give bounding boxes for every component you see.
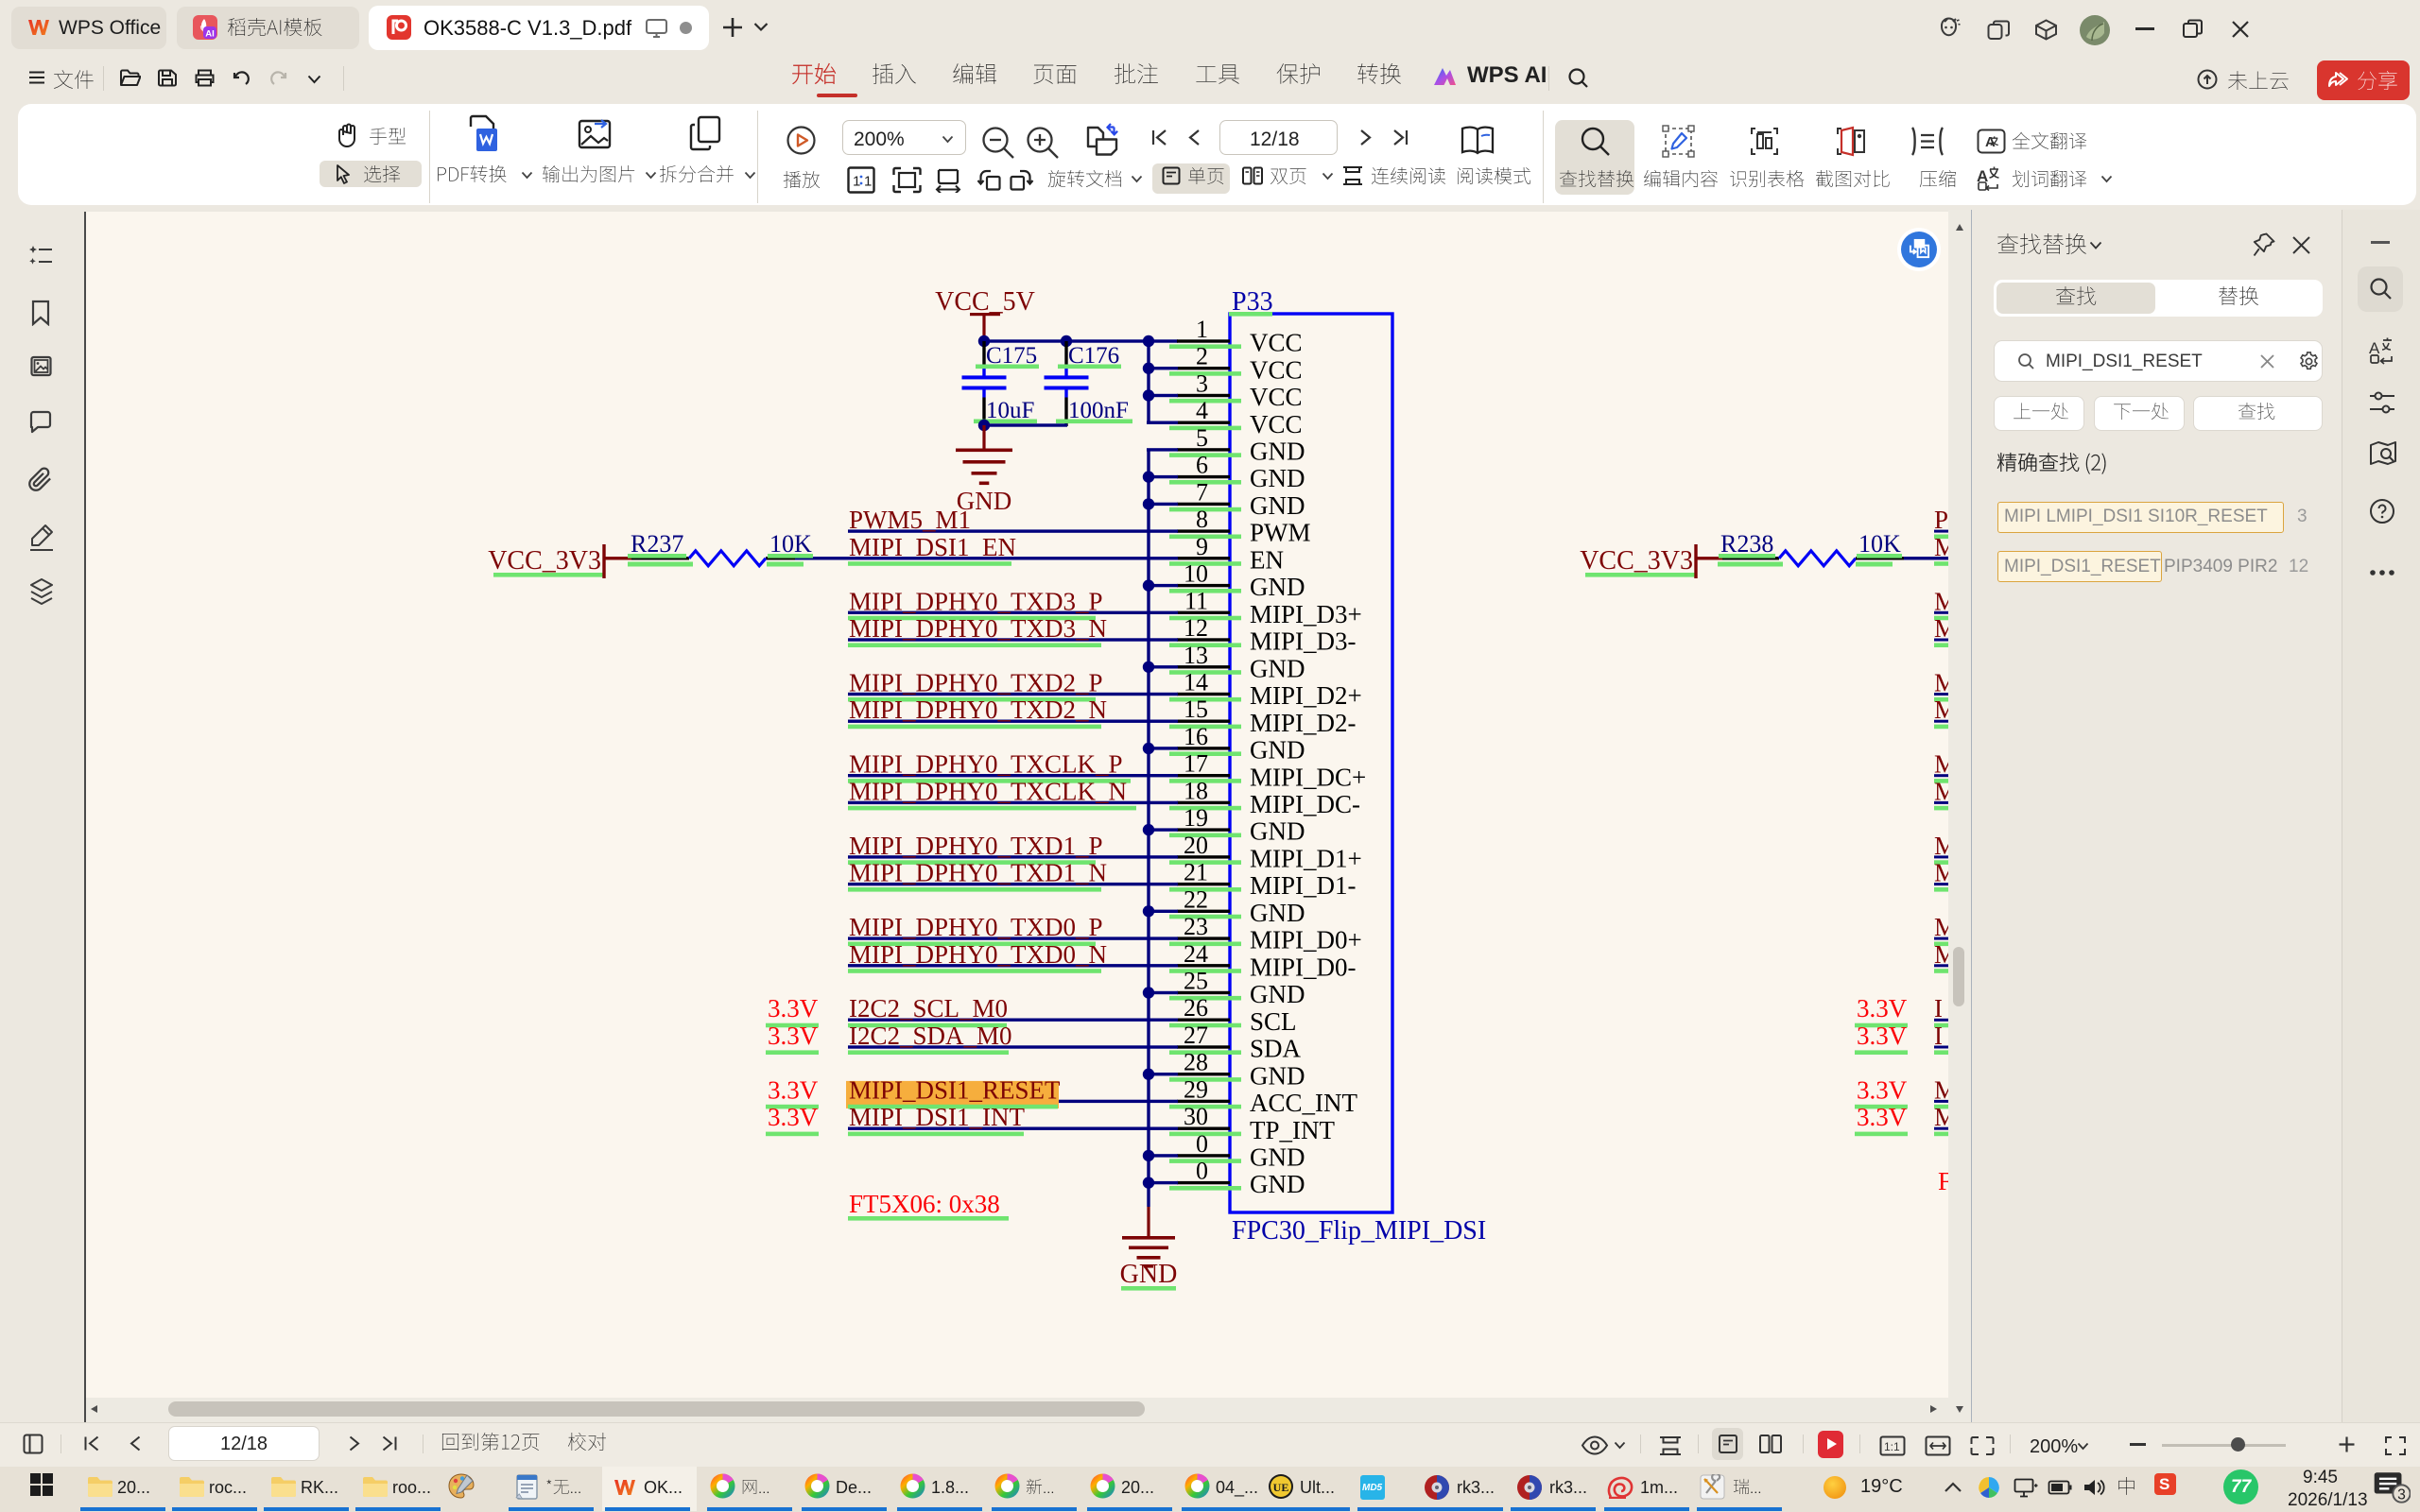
svg-text:MIPI_DPHY0_TXD0_N: MIPI_DPHY0_TXD0_N (849, 940, 1107, 969)
svg-text:5: 5 (1196, 424, 1208, 452)
svg-text:R237: R237 (631, 530, 683, 558)
svg-text:MIPI_DC-: MIPI_DC- (1250, 790, 1360, 818)
svg-text:VCC_3V3: VCC_3V3 (488, 546, 601, 576)
svg-text:3.3V: 3.3V (1857, 1022, 1908, 1050)
svg-text:VCC: VCC (1250, 410, 1303, 438)
svg-text:17: 17 (1184, 750, 1208, 778)
svg-text:MIPI_DPHY0_TXD1_P: MIPI_DPHY0_TXD1_P (849, 832, 1103, 860)
svg-text:GND: GND (1250, 464, 1305, 492)
svg-text:7: 7 (1196, 478, 1208, 506)
svg-text:19: 19 (1184, 804, 1208, 832)
svg-text:GND: GND (1250, 817, 1305, 846)
svg-text:GND: GND (1250, 1143, 1305, 1172)
svg-text:MIPI_DPHY0_TXCLK_N: MIPI_DPHY0_TXCLK_N (849, 777, 1127, 805)
svg-text:I2C2_SDA_M0: I2C2_SDA_M0 (849, 1022, 1012, 1050)
svg-text:3: 3 (2397, 1486, 2406, 1503)
svg-text:GND: GND (1250, 654, 1305, 682)
svg-text:23: 23 (1184, 913, 1208, 940)
svg-text:VCC_5V: VCC_5V (935, 287, 1035, 317)
svg-text:8: 8 (1196, 506, 1208, 533)
svg-text:16: 16 (1184, 723, 1208, 750)
svg-text:VCC_3V3: VCC_3V3 (1580, 546, 1693, 576)
svg-text:10K: 10K (769, 530, 812, 558)
svg-text:I: I (1934, 994, 1943, 1022)
svg-text:1:1: 1:1 (1884, 1440, 1900, 1453)
svg-text:I2C2_SCL_M0: I2C2_SCL_M0 (849, 994, 1008, 1022)
svg-text:ACC_INT: ACC_INT (1250, 1089, 1358, 1117)
svg-text:3.3V: 3.3V (1857, 1075, 1908, 1104)
svg-text:26: 26 (1184, 994, 1208, 1022)
svg-text:MIPI_D2+: MIPI_D2+ (1250, 681, 1362, 710)
svg-text:22: 22 (1184, 885, 1208, 913)
svg-text:2: 2 (1196, 343, 1208, 370)
svg-text:3.3V: 3.3V (768, 1103, 819, 1131)
svg-text:MIPI_DC+: MIPI_DC+ (1250, 763, 1366, 791)
svg-text:GND: GND (1250, 899, 1305, 927)
svg-text:10: 10 (1184, 560, 1208, 588)
svg-text:MIPI_D1+: MIPI_D1+ (1250, 845, 1362, 873)
svg-text:0: 0 (1196, 1158, 1208, 1185)
svg-text:3.3V: 3.3V (768, 994, 819, 1022)
svg-text:3.3V: 3.3V (1857, 994, 1908, 1022)
svg-text:13: 13 (1184, 642, 1208, 669)
svg-text:6: 6 (1196, 452, 1208, 479)
svg-text:30: 30 (1184, 1103, 1208, 1130)
svg-text:SCL: SCL (1250, 1007, 1297, 1036)
svg-text:MIPI_DSI1_RESET: MIPI_DSI1_RESET (849, 1075, 1061, 1104)
svg-text:28: 28 (1184, 1049, 1208, 1076)
svg-text:GND: GND (1250, 438, 1305, 466)
svg-text:GND: GND (1250, 1170, 1305, 1198)
svg-text:GND: GND (1250, 491, 1305, 520)
svg-text:VCC: VCC (1250, 355, 1303, 384)
svg-text:SDA: SDA (1250, 1035, 1302, 1063)
svg-text:24: 24 (1184, 940, 1208, 968)
svg-text:3.3V: 3.3V (768, 1022, 819, 1050)
svg-text:12: 12 (1184, 614, 1208, 642)
svg-text:MIPI_DPHY0_TXD3_P: MIPI_DPHY0_TXD3_P (849, 587, 1103, 615)
svg-text:VCC: VCC (1250, 383, 1303, 411)
svg-text:VCC: VCC (1250, 329, 1303, 357)
svg-text:3.3V: 3.3V (1857, 1103, 1908, 1131)
svg-text:GND: GND (1250, 736, 1305, 765)
svg-text:UE: UE (1273, 1481, 1289, 1494)
svg-text:MIPI_DSI1_INT: MIPI_DSI1_INT (849, 1103, 1026, 1131)
svg-text:MIPI_D3-: MIPI_D3- (1250, 627, 1357, 656)
svg-text:4: 4 (1196, 397, 1208, 424)
svg-text:PWM5_M1: PWM5_M1 (849, 506, 971, 534)
svg-text:GND: GND (1250, 980, 1305, 1008)
svg-text:18: 18 (1184, 777, 1208, 804)
svg-text:3: 3 (1196, 370, 1208, 398)
svg-text:R238: R238 (1720, 530, 1773, 558)
svg-text:MIPI_D0-: MIPI_D0- (1250, 953, 1357, 981)
svg-text:GND: GND (1250, 1061, 1305, 1090)
svg-text:FT5X06: 0x38: FT5X06: 0x38 (849, 1190, 1000, 1218)
svg-text:15: 15 (1184, 696, 1208, 723)
svg-text:25: 25 (1184, 968, 1208, 995)
svg-text:TP_INT: TP_INT (1250, 1116, 1335, 1144)
svg-text:MIPI_D0+: MIPI_D0+ (1250, 926, 1362, 954)
svg-text:MIPI_DPHY0_TXD3_N: MIPI_DPHY0_TXD3_N (849, 614, 1107, 643)
svg-text:PWM: PWM (1250, 519, 1311, 547)
svg-text:21: 21 (1184, 859, 1208, 886)
svg-text:0: 0 (1196, 1130, 1208, 1158)
svg-text:MIPI_D2-: MIPI_D2- (1250, 709, 1357, 737)
svg-text:14: 14 (1184, 669, 1208, 696)
svg-text:9: 9 (1196, 533, 1208, 560)
svg-text:3.3V: 3.3V (768, 1075, 819, 1104)
svg-text:A: A (2369, 339, 2380, 357)
svg-text:29: 29 (1184, 1075, 1208, 1103)
svg-text:20: 20 (1184, 832, 1208, 859)
svg-text:MIPI_D3+: MIPI_D3+ (1250, 600, 1362, 628)
svg-text:MIPI_DPHY0_TXD1_N: MIPI_DPHY0_TXD1_N (849, 859, 1107, 887)
svg-text:1: 1 (1196, 316, 1208, 343)
svg-text:MIPI_D1-: MIPI_D1- (1250, 871, 1357, 900)
svg-text:MIPI_DPHY0_TXCLK_P: MIPI_DPHY0_TXCLK_P (849, 750, 1123, 779)
svg-text:10K: 10K (1858, 530, 1901, 558)
svg-text:GND: GND (1120, 1260, 1178, 1289)
svg-text:FPC30_Flip_MIPI_DSI: FPC30_Flip_MIPI_DSI (1232, 1216, 1486, 1246)
svg-text:MIPI_DPHY0_TXD0_P: MIPI_DPHY0_TXD0_P (849, 913, 1103, 941)
svg-text:27: 27 (1184, 1022, 1208, 1049)
svg-text:MIPI_DPHY0_TXD2_N: MIPI_DPHY0_TXD2_N (849, 696, 1107, 724)
svg-text:MIPI_DPHY0_TXD2_P: MIPI_DPHY0_TXD2_P (849, 669, 1103, 697)
svg-text:GND: GND (1250, 573, 1305, 601)
svg-text:EN: EN (1250, 545, 1284, 574)
svg-text:11: 11 (1184, 587, 1208, 614)
